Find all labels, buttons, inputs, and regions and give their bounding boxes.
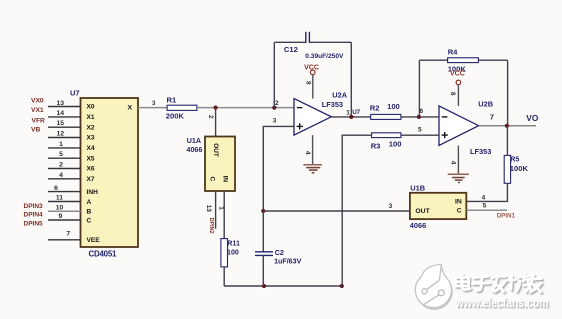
resistor R3 body [372,133,401,138]
svg-text:3: 3 [389,203,393,210]
resistor R2 body [371,114,401,119]
IC U7 CD4051 body [81,98,139,247]
WATERMARK [415,264,550,311]
svg-text:2: 2 [275,100,279,107]
svg-text:8: 8 [449,92,456,96]
svg-text:14: 14 [57,110,65,117]
wire pin3 X output [138,107,167,109]
svg-text:3: 3 [273,118,277,125]
svg-text:VO: VO [526,113,539,123]
node junction bus corner [340,284,344,288]
resistor R1 body [167,105,197,110]
svg-text:4: 4 [449,161,456,165]
svg-text:1: 1 [59,141,63,148]
svg-text:X5: X5 [87,155,95,162]
svg-text:4066: 4066 [187,146,203,154]
wire feedback right vertical to output [350,42,352,117]
svg-text:4: 4 [482,195,486,202]
svg-text:DPIN3: DPIN3 [24,203,44,210]
wire pin6 [48,191,81,193]
logo pad right [438,290,444,296]
resistor R11 body [221,239,228,267]
wire pin14 [48,116,81,118]
svg-text:U7: U7 [352,109,360,116]
wire pin2 [48,168,81,170]
U2B plus [442,134,448,136]
wire U2B output to VO [479,125,536,127]
svg-text:13: 13 [57,100,65,107]
logo pad left [422,289,427,294]
svg-text:U7: U7 [70,89,80,98]
svg-text:CD4051: CD4051 [89,249,118,258]
svg-text:0.39uF/250V: 0.39uF/250V [305,53,344,60]
svg-text:4: 4 [59,172,63,179]
U7 [24,89,168,259]
svg-text:7: 7 [66,231,70,238]
svg-text:DPIN2: DPIN2 [208,218,214,234]
node junction output/C12 [349,115,353,119]
svg-text:6: 6 [54,185,58,192]
svg-text:C12: C12 [284,45,298,54]
svg-text:100K: 100K [510,164,529,173]
wire pin13 [48,106,81,108]
svg-text:4066: 4066 [410,221,426,230]
svg-text:U1A: U1A [187,137,201,145]
logo nib inner cut [439,264,441,280]
logo disc with pen nib [415,264,451,307]
wire R4 top right [478,59,507,61]
svg-text:2: 2 [59,162,63,169]
switch U1B body [410,193,466,219]
watermark chinese text 电子发烧友 (drawn strokes) [456,274,544,294]
wire pin11 [48,201,81,203]
node junction pin3/U1B [261,209,265,213]
svg-text:C: C [87,217,92,224]
node junction bus/C2 [262,284,266,288]
svg-text:DPIN4: DPIN4 [24,212,44,219]
logo trace lower [423,295,440,306]
wire R3 left to vertical [342,135,371,286]
svg-text:2: 2 [207,115,214,119]
wire pin5 [48,157,81,159]
ground (U2A) [303,165,322,173]
pin names inside [87,104,101,245]
svg-text:12: 12 [57,131,65,138]
svg-text:VX0: VX0 [31,98,44,105]
wire feedback top right [309,41,351,43]
svg-text:100: 100 [227,249,239,257]
svg-text:9: 9 [59,213,63,220]
svg-text:R1: R1 [167,96,177,105]
U2A plus [297,125,303,127]
svg-text:1: 1 [346,109,350,116]
MIDDLE [166,32,410,288]
logo trace upper [427,280,440,289]
svg-text:B: B [87,209,92,216]
wire R2 to U2B pin6 [401,116,439,118]
svg-text:5: 5 [483,202,487,209]
svg-text:OUT: OUT [415,208,430,215]
U2B minus [442,116,448,118]
wire VCC to pin8 [312,75,314,99]
ground (U2B) [448,174,469,182]
op-amp U2B triangle [439,106,479,146]
wire R4 feedback left vertical [418,60,420,117]
svg-text:5: 5 [59,151,63,158]
svg-text:7: 7 [490,113,494,122]
svg-text:5: 5 [418,126,422,133]
wire pin4 to ground (U2B) [457,146,459,175]
wire pin1 [48,147,81,149]
svg-text:X0: X0 [87,104,95,111]
wire U2A pin3 [263,126,294,211]
svg-text:13: 13 [205,205,212,213]
wire R11 to bus [223,267,225,286]
svg-text:A: A [87,199,92,206]
svg-text:100: 100 [389,140,402,149]
resistor R4 body [448,58,479,63]
svg-text:15: 15 [57,120,65,127]
svg-text:OUT: OUT [212,143,219,157]
wire pin10 [48,210,81,212]
svg-text:VFR: VFR [32,117,46,124]
svg-text:11: 11 [56,195,63,202]
svg-text:C: C [457,207,462,214]
svg-text:R5: R5 [510,156,519,164]
wire U1A IN down to R11 [223,191,225,239]
node junction R2/R4 [417,115,421,119]
svg-text:C2: C2 [275,249,284,257]
svg-text:X7: X7 [87,176,95,183]
svg-text:U2B: U2B [478,99,493,108]
svg-text:R3: R3 [371,141,381,150]
wire VCC to pin8 [457,85,459,106]
svg-text:R11: R11 [227,240,240,248]
svg-text:VEE: VEE [87,237,101,244]
svg-text:100: 100 [387,102,400,111]
svg-text:LF353: LF353 [322,100,343,109]
svg-text:U2A: U2A [332,90,347,99]
wire pin7 [48,239,81,241]
node junction feedback [272,106,276,110]
svg-text:C: C [209,176,216,181]
node junction output/R4/R5 [505,124,509,128]
svg-text:DPIN5: DPIN5 [24,221,44,228]
op-amp U2A triangle [294,99,331,136]
svg-text:X4: X4 [87,145,95,152]
wire pin9 [48,219,81,221]
svg-text:IN: IN [222,176,229,183]
svg-text:X3: X3 [87,135,95,142]
wire R3 to U2B pin5 [401,134,439,136]
svg-text:R4: R4 [448,47,458,56]
wire pin15 [48,126,81,128]
wire junction down to C2 [262,211,264,252]
wire pin4 [48,178,81,180]
wire feedback top left [274,41,305,43]
pin numbers left [54,100,70,238]
svg-text:INH: INH [87,189,99,196]
svg-text:8: 8 [304,81,311,85]
svg-text:X: X [128,105,133,112]
wire R1 to U2A pin2 [197,107,294,109]
svg-text:IN: IN [455,199,462,206]
svg-text:3: 3 [152,100,156,107]
wire feedback left vertical [273,42,275,107]
svg-text:X2: X2 [87,124,95,131]
wire R4 right vertical to output [507,60,509,126]
node junction R1/U1A [214,106,218,110]
capacitor C2 plates [255,251,273,253]
svg-text:1: 1 [218,206,225,210]
svg-text:200K: 200K [166,112,185,121]
capacitor C12 plates [305,32,307,43]
wire U1A C stub [215,191,217,229]
svg-text:www.elecfans.com: www.elecfans.com [455,296,549,310]
logo shadow [417,274,452,309]
wire U1B OUT line [263,210,410,212]
resistor R5 body [504,155,510,183]
wire C2 to bus [262,255,264,286]
svg-text:X1: X1 [87,114,95,121]
wire R5 to U1B IN [466,183,507,201]
wire bottom bus [224,285,342,287]
svg-text:U1B: U1B [410,183,425,192]
svg-text:VB: VB [31,127,40,134]
wire R4 top left [419,59,447,61]
svg-text:R2: R2 [370,104,380,113]
svg-text:1uF/63V: 1uF/63V [274,258,301,266]
wire U1B C stub [466,209,507,211]
U2A minus [297,107,303,109]
svg-text:X6: X6 [87,166,95,173]
svg-text:DPIN1: DPIN1 [497,213,516,220]
svg-text:6: 6 [420,108,424,115]
RIGHT [342,47,539,286]
wire pin12 [48,137,81,139]
switch U1A body [205,137,235,192]
svg-text:4: 4 [304,151,311,155]
svg-text:VX1: VX1 [31,107,44,114]
svg-text:VCC: VCC [450,70,465,77]
svg-text:LF353: LF353 [470,147,491,156]
wire U2A output [331,116,370,118]
wire junction to U1A OUT [215,108,217,137]
wire output to R5 [506,126,508,156]
svg-text:10: 10 [56,205,64,212]
wire pin4 to ground [312,135,314,165]
